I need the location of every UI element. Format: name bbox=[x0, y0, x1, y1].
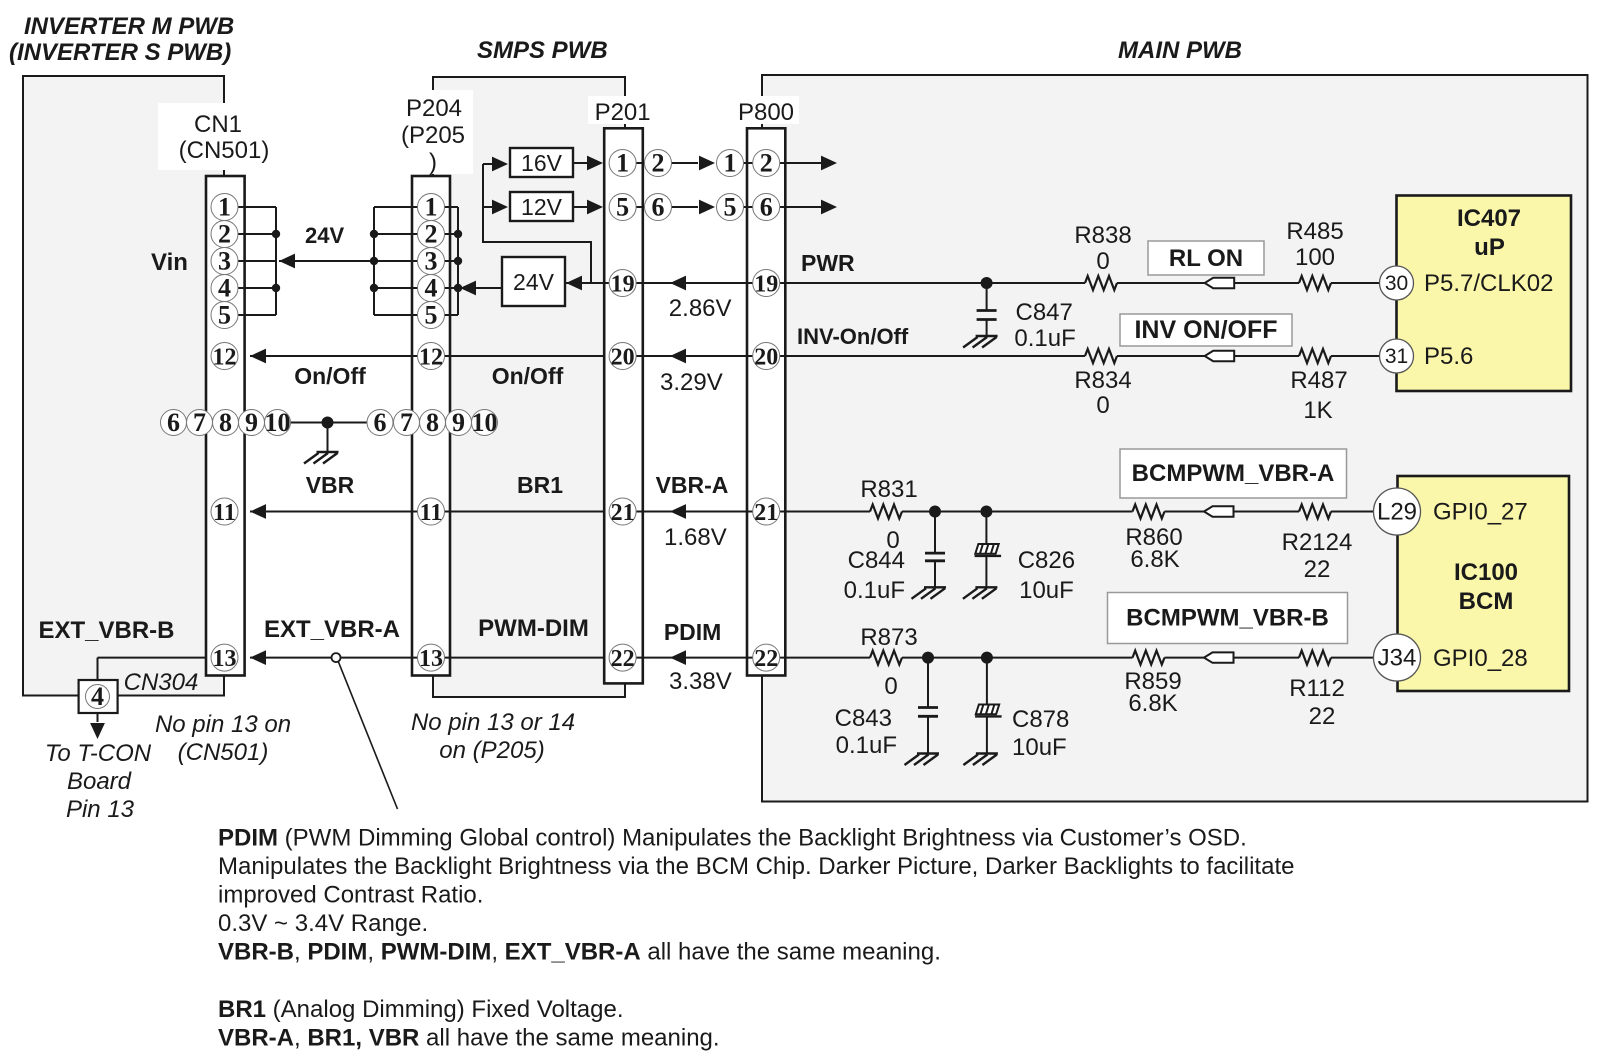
svg-text:improved Contrast Ratio.: improved Contrast Ratio. bbox=[218, 882, 483, 909]
svg-text:19: 19 bbox=[754, 272, 778, 298]
svg-text:1: 1 bbox=[218, 193, 231, 222]
svg-text:Pin 13: Pin 13 bbox=[66, 796, 135, 823]
svg-text:BR1: BR1 bbox=[517, 472, 563, 498]
svg-text:1: 1 bbox=[616, 149, 629, 178]
svg-text:0.3V ~ 3.4V Range.: 0.3V ~ 3.4V Range. bbox=[218, 910, 428, 937]
svg-text:INV-On/Off: INV-On/Off bbox=[797, 324, 909, 349]
svg-text:(INVERTER S PWB): (INVERTER S PWB) bbox=[9, 39, 231, 66]
svg-text:L29: L29 bbox=[1377, 499, 1417, 526]
svg-text:5: 5 bbox=[724, 193, 737, 222]
svg-text:EXT_VBR-B: EXT_VBR-B bbox=[38, 617, 174, 644]
svg-text:GPI0_27: GPI0_27 bbox=[1433, 499, 1528, 526]
svg-text:Board: Board bbox=[67, 768, 132, 795]
svg-text:INV ON/OFF: INV ON/OFF bbox=[1134, 316, 1277, 344]
svg-text:On/Off: On/Off bbox=[294, 363, 366, 389]
svg-text:CN304: CN304 bbox=[124, 669, 199, 696]
svg-text:20: 20 bbox=[754, 345, 778, 371]
svg-text:PWR: PWR bbox=[801, 250, 855, 276]
svg-text:0.1uF: 0.1uF bbox=[844, 577, 905, 604]
svg-text:C847: C847 bbox=[1016, 299, 1073, 326]
svg-text:9: 9 bbox=[452, 408, 465, 437]
svg-text:GPI0_28: GPI0_28 bbox=[1433, 645, 1528, 672]
svg-text:(CN501): (CN501) bbox=[179, 137, 270, 164]
svg-text:VBR: VBR bbox=[306, 472, 355, 498]
svg-text:31: 31 bbox=[1385, 345, 1408, 368]
svg-text:R831: R831 bbox=[860, 476, 917, 503]
svg-text:2: 2 bbox=[652, 149, 665, 178]
svg-text:10uF: 10uF bbox=[1019, 577, 1074, 604]
svg-text:R2124: R2124 bbox=[1282, 529, 1353, 556]
svg-text:1.68V: 1.68V bbox=[664, 524, 727, 551]
svg-text:6: 6 bbox=[374, 408, 387, 437]
svg-text:SMPS PWB: SMPS PWB bbox=[477, 37, 608, 64]
svg-text:BCMPWM_VBR-B: BCMPWM_VBR-B bbox=[1126, 605, 1329, 632]
svg-text:BCMPWM_VBR-A: BCMPWM_VBR-A bbox=[1132, 460, 1335, 487]
svg-text:C878: C878 bbox=[1012, 706, 1069, 733]
svg-text:No pin 13 on: No pin 13 on bbox=[155, 711, 291, 738]
svg-text:22: 22 bbox=[611, 646, 635, 672]
svg-text:12: 12 bbox=[419, 345, 443, 371]
svg-text:4: 4 bbox=[425, 274, 438, 303]
svg-text:2.86V: 2.86V bbox=[669, 295, 732, 322]
svg-text:R112: R112 bbox=[1289, 675, 1345, 702]
svg-text:J34: J34 bbox=[1378, 645, 1417, 672]
svg-text:2: 2 bbox=[425, 220, 438, 249]
svg-text:C826: C826 bbox=[1018, 547, 1075, 574]
svg-text:P204: P204 bbox=[406, 95, 462, 122]
svg-text:13: 13 bbox=[419, 646, 443, 672]
svg-text:1: 1 bbox=[724, 149, 737, 178]
svg-text:1K: 1K bbox=[1303, 397, 1332, 424]
svg-text:6.8K: 6.8K bbox=[1128, 690, 1177, 717]
svg-text:10: 10 bbox=[265, 408, 291, 437]
svg-text:1: 1 bbox=[425, 193, 438, 222]
svg-text:19: 19 bbox=[611, 272, 635, 298]
svg-text:EXT_VBR-A: EXT_VBR-A bbox=[264, 616, 400, 643]
svg-text:21: 21 bbox=[754, 500, 778, 526]
svg-text:on (P205): on (P205) bbox=[439, 737, 544, 764]
svg-text:13: 13 bbox=[213, 646, 237, 672]
svg-text:9: 9 bbox=[245, 408, 258, 437]
svg-text:3: 3 bbox=[218, 247, 231, 276]
svg-text:BR1 (Analog Dimming) Fixed Vol: BR1 (Analog Dimming) Fixed Voltage. bbox=[218, 996, 624, 1023]
svg-text:VBR-A, BR1, VBR all have the s: VBR-A, BR1, VBR all have the same meanin… bbox=[218, 1025, 720, 1052]
svg-text:22: 22 bbox=[1309, 703, 1336, 730]
svg-text:R485: R485 bbox=[1286, 218, 1343, 245]
svg-text:22: 22 bbox=[1304, 556, 1331, 583]
svg-text:24V: 24V bbox=[305, 223, 344, 248]
svg-text:uP: uP bbox=[1474, 234, 1505, 261]
svg-text:5: 5 bbox=[425, 301, 438, 330]
svg-text:24V: 24V bbox=[513, 269, 555, 295]
svg-text:0.1uF: 0.1uF bbox=[836, 732, 897, 759]
svg-text:IC100: IC100 bbox=[1454, 559, 1518, 586]
svg-text:0: 0 bbox=[884, 673, 897, 700]
svg-text:MAIN PWB: MAIN PWB bbox=[1118, 37, 1242, 64]
svg-text:8: 8 bbox=[219, 408, 232, 437]
svg-text:0: 0 bbox=[1096, 392, 1109, 419]
svg-text:0.1uF: 0.1uF bbox=[1014, 325, 1075, 352]
svg-text:2: 2 bbox=[760, 149, 773, 178]
svg-text:20: 20 bbox=[611, 345, 635, 371]
svg-text:No pin 13 or 14: No pin 13 or 14 bbox=[411, 709, 575, 736]
svg-text:VBR-A: VBR-A bbox=[656, 472, 729, 498]
svg-text:Manipulates the Backlight Brig: Manipulates the Backlight Brightness via… bbox=[218, 853, 1294, 880]
svg-text:3.29V: 3.29V bbox=[660, 369, 723, 396]
svg-text:R838: R838 bbox=[1074, 222, 1131, 249]
svg-text:6: 6 bbox=[760, 193, 773, 222]
svg-text:(CN501): (CN501) bbox=[178, 739, 269, 766]
svg-text:16V: 16V bbox=[521, 150, 563, 176]
svg-text:INVERTER M PWB: INVERTER M PWB bbox=[24, 13, 234, 40]
svg-text:PDIM: PDIM bbox=[664, 619, 722, 645]
svg-text:30: 30 bbox=[1385, 272, 1408, 295]
svg-text:2: 2 bbox=[218, 220, 231, 249]
svg-text:3.38V: 3.38V bbox=[669, 668, 732, 695]
svg-text:PDIM (PWM Dimming Global contr: PDIM (PWM Dimming Global control) Manipu… bbox=[218, 825, 1247, 852]
svg-text:To T-CON: To T-CON bbox=[45, 740, 152, 767]
svg-text:(P205: (P205 bbox=[401, 122, 465, 149]
svg-text:11: 11 bbox=[213, 500, 236, 526]
svg-text:P800: P800 bbox=[738, 99, 794, 126]
svg-text:11: 11 bbox=[420, 500, 443, 526]
svg-text:R873: R873 bbox=[860, 624, 917, 651]
svg-text:R834: R834 bbox=[1074, 367, 1131, 394]
svg-text:10: 10 bbox=[472, 408, 498, 437]
svg-text:21: 21 bbox=[611, 500, 635, 526]
svg-text:P5.6: P5.6 bbox=[1424, 343, 1473, 370]
svg-text:12V: 12V bbox=[521, 194, 563, 220]
svg-text:12: 12 bbox=[213, 345, 237, 371]
svg-text:22: 22 bbox=[754, 646, 778, 672]
svg-text:6.8K: 6.8K bbox=[1130, 546, 1179, 573]
svg-text:6: 6 bbox=[652, 193, 665, 222]
svg-text:C844: C844 bbox=[848, 547, 905, 574]
svg-text:7: 7 bbox=[400, 408, 413, 437]
svg-text:RL ON: RL ON bbox=[1169, 245, 1243, 272]
svg-text:BCM: BCM bbox=[1459, 588, 1514, 615]
svg-text:VBR-B, PDIM, PWM-DIM, EXT_VBR-: VBR-B, PDIM, PWM-DIM, EXT_VBR-A all have… bbox=[218, 939, 941, 966]
svg-text:IC407: IC407 bbox=[1457, 205, 1521, 232]
svg-text:8: 8 bbox=[426, 408, 439, 437]
svg-text:0: 0 bbox=[1096, 248, 1109, 275]
svg-text:4: 4 bbox=[91, 682, 104, 711]
svg-text:C843: C843 bbox=[835, 705, 892, 732]
svg-text:CN1: CN1 bbox=[194, 111, 242, 138]
svg-text:5: 5 bbox=[218, 301, 231, 330]
svg-text:6: 6 bbox=[167, 408, 180, 437]
svg-text:5: 5 bbox=[616, 193, 629, 222]
svg-text:P5.7/CLK02: P5.7/CLK02 bbox=[1424, 270, 1553, 297]
svg-text:10uF: 10uF bbox=[1012, 734, 1067, 761]
svg-text:100: 100 bbox=[1295, 244, 1335, 271]
svg-text:P201: P201 bbox=[595, 99, 651, 126]
svg-text:3: 3 bbox=[425, 247, 438, 276]
svg-text:PWM-DIM: PWM-DIM bbox=[478, 615, 589, 642]
svg-text:R487: R487 bbox=[1290, 367, 1347, 394]
svg-text:Vin: Vin bbox=[151, 249, 188, 276]
svg-text:4: 4 bbox=[218, 274, 231, 303]
svg-text:): ) bbox=[429, 149, 437, 176]
svg-text:7: 7 bbox=[193, 408, 206, 437]
svg-text:On/Off: On/Off bbox=[492, 363, 564, 389]
